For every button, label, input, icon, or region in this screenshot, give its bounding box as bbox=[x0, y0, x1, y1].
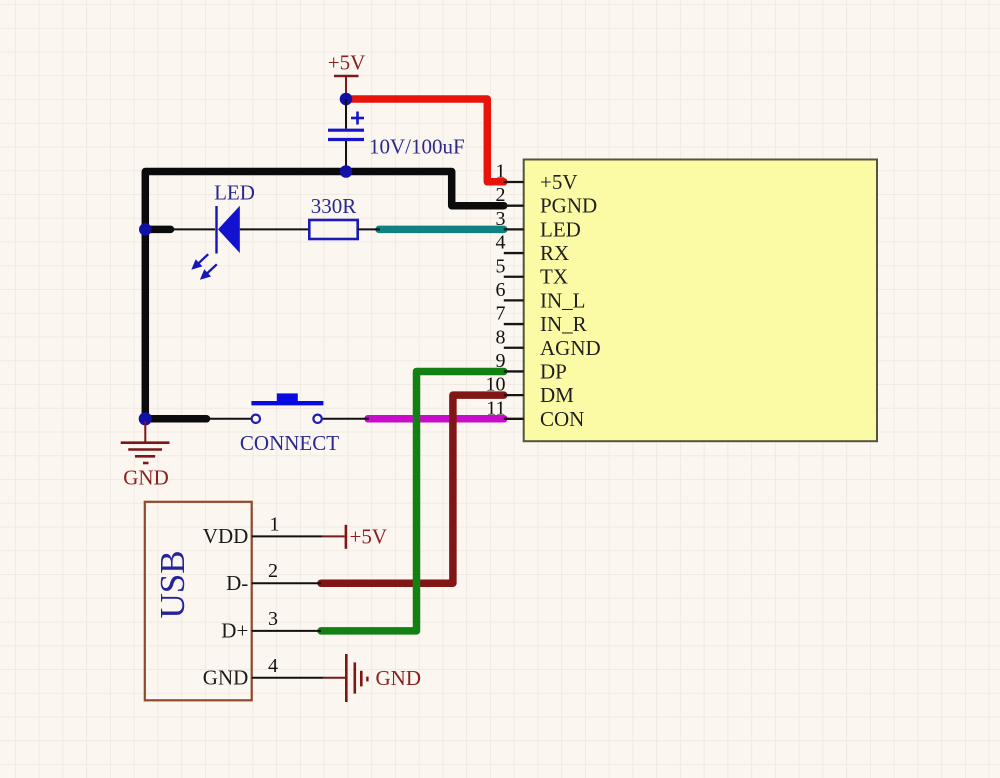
svg-text:CONNECT: CONNECT bbox=[240, 431, 339, 455]
svg-text:4: 4 bbox=[496, 232, 506, 254]
svg-text:1: 1 bbox=[270, 513, 280, 535]
svg-text:2: 2 bbox=[496, 184, 506, 206]
J1 pin 3 (D+) bbox=[221, 608, 321, 643]
wire LED anode thin bbox=[168, 228, 215, 230]
wire LED-resistor thin bbox=[240, 228, 309, 230]
junction dot at capacitor bottom bbox=[340, 165, 353, 178]
svg-text:10: 10 bbox=[486, 374, 506, 396]
pushbutton contact right bbox=[313, 415, 321, 423]
power symbol +5V at USB pin 1 bbox=[323, 525, 346, 549]
pushbutton knob bbox=[277, 393, 298, 403]
U1 pin 2 (PGND) bbox=[496, 184, 598, 218]
U1 pin 6 (IN_L) bbox=[496, 279, 586, 312]
svg-text:IN_L: IN_L bbox=[540, 288, 586, 312]
svg-text:5: 5 bbox=[496, 255, 506, 277]
U1 pin 5 (TX) bbox=[496, 255, 569, 288]
LED light arrow 2 bbox=[200, 264, 217, 280]
svg-text:VDD: VDD bbox=[203, 524, 249, 548]
USB connector box bbox=[145, 502, 252, 701]
U1 pin 7 (IN_R) bbox=[496, 303, 587, 337]
svg-text:CON: CON bbox=[540, 407, 584, 431]
U1 pin 1 (+5V) bbox=[496, 161, 578, 195]
U1 pin 9 (DP) bbox=[496, 350, 567, 384]
svg-text:7: 7 bbox=[496, 303, 506, 325]
wire DM dark red bbox=[321, 395, 504, 583]
svg-text:1: 1 bbox=[496, 161, 506, 183]
LED triangle bbox=[218, 206, 240, 253]
svg-text:4: 4 bbox=[268, 655, 278, 677]
J1 pin 2 (D-) bbox=[226, 560, 321, 595]
wire switch left lead thin bbox=[205, 418, 252, 420]
svg-text:RX: RX bbox=[540, 241, 569, 265]
wire +5V red bbox=[346, 99, 504, 182]
resistor R 330R bbox=[309, 220, 357, 239]
svg-text:LED: LED bbox=[540, 217, 581, 241]
pushbutton bar bbox=[251, 401, 323, 405]
svg-text:GND: GND bbox=[203, 665, 249, 689]
svg-text:+5V: +5V bbox=[540, 170, 578, 194]
U1 pin 10 (DM) bbox=[486, 374, 575, 408]
svg-text:10V/100uF: 10V/100uF bbox=[369, 135, 465, 159]
svg-text:D+: D+ bbox=[221, 619, 248, 643]
svg-text:9: 9 bbox=[496, 350, 506, 372]
svg-text:11: 11 bbox=[486, 397, 505, 419]
wire LED net teal bbox=[379, 226, 504, 234]
svg-text:2: 2 bbox=[268, 560, 278, 582]
svg-text:IN_R: IN_R bbox=[540, 312, 587, 336]
J1 pin 4 (GND) bbox=[203, 655, 323, 690]
svg-text:LED: LED bbox=[214, 181, 255, 205]
svg-text:3: 3 bbox=[496, 208, 506, 230]
capacitor leads bbox=[345, 99, 347, 172]
svg-text:GND: GND bbox=[376, 666, 422, 690]
U1 pin 11 (CON) bbox=[486, 397, 584, 430]
pushbutton contact left bbox=[252, 415, 260, 423]
svg-text:USB: USB bbox=[153, 550, 192, 618]
junction dot at LED tap bbox=[139, 223, 152, 236]
ground symbol at USB pin 4 bbox=[323, 654, 367, 702]
svg-text:8: 8 bbox=[496, 326, 506, 348]
wire switch right lead thin bbox=[322, 418, 369, 420]
J1 pin 1 (VDD) bbox=[203, 513, 323, 548]
LED cathode bar bbox=[215, 206, 217, 254]
wire CON magenta bbox=[368, 415, 504, 423]
capacitor plates bbox=[328, 130, 364, 139]
ground symbol GND left bbox=[121, 421, 170, 463]
LED light arrow 1 bbox=[191, 254, 208, 270]
U1 pin 8 (AGND) bbox=[496, 326, 601, 360]
wire LED tap (thick stub) bbox=[145, 226, 170, 234]
U1 pin 4 (RX) bbox=[496, 232, 570, 266]
U1 pin 3 (LED) bbox=[496, 208, 581, 242]
capacitor polarity plus bbox=[351, 112, 364, 125]
junction dot at +5V bbox=[340, 93, 353, 106]
svg-text:PGND: PGND bbox=[540, 194, 597, 218]
wire DP green bbox=[321, 371, 504, 630]
power symbol +5V top bbox=[334, 76, 359, 99]
svg-text:DM: DM bbox=[540, 383, 574, 407]
svg-text:3: 3 bbox=[268, 608, 278, 630]
IC block bbox=[524, 160, 877, 442]
svg-text:GND: GND bbox=[123, 466, 169, 490]
svg-text:330R: 330R bbox=[311, 194, 357, 218]
wire resistor-teal thin bbox=[358, 228, 380, 230]
junction dot at GND row bbox=[139, 412, 152, 425]
svg-text:AGND: AGND bbox=[540, 336, 601, 360]
svg-text:DP: DP bbox=[540, 360, 567, 384]
svg-text:TX: TX bbox=[540, 265, 568, 289]
svg-text:+5V: +5V bbox=[328, 51, 366, 75]
svg-text:D-: D- bbox=[226, 571, 248, 595]
wire PGND black bbox=[145, 172, 504, 419]
svg-text:6: 6 bbox=[496, 279, 506, 301]
svg-text:+5V: +5V bbox=[350, 525, 388, 549]
wire switch feed (thick stub) bbox=[145, 415, 206, 423]
